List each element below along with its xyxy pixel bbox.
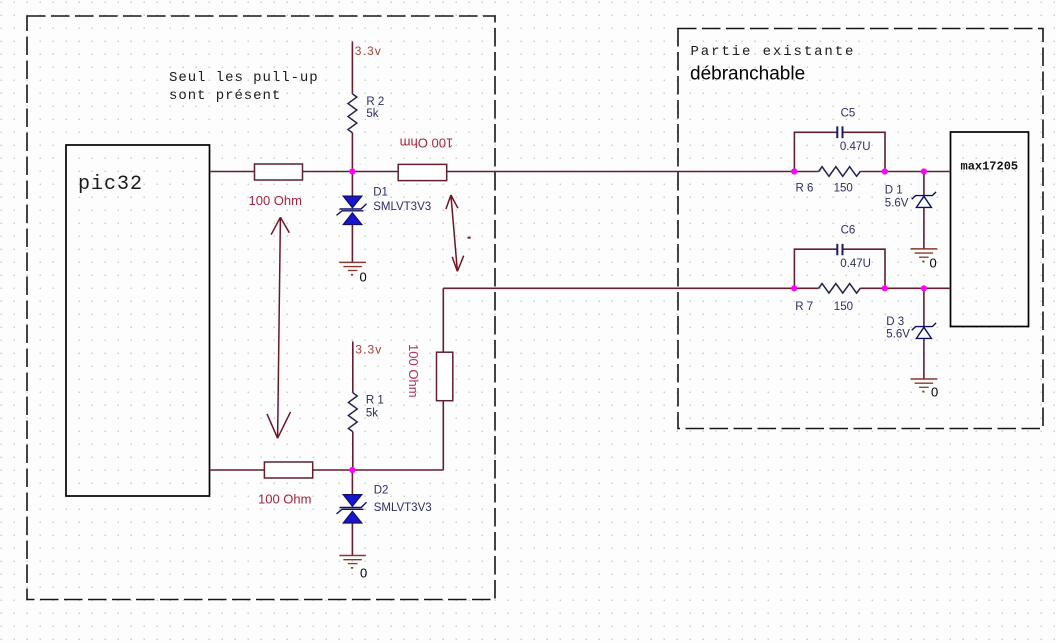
wire: node to zener D 3 xyxy=(923,288,925,326)
svg-text:3.3v: 3.3v xyxy=(355,343,382,357)
wire: R2 to node A xyxy=(351,133,353,196)
ground (under zener D 3) xyxy=(911,379,938,392)
diode D2 TVS SMLVT3V3 xyxy=(337,495,367,523)
annotation arrow (left double-headed) xyxy=(267,217,291,438)
capacitor C5 plates xyxy=(837,126,842,138)
wire: C6 bracket xyxy=(794,249,885,288)
svg-text:R 7: R 7 xyxy=(795,301,813,313)
resistor 100 Ohm (vertical, box body) xyxy=(437,352,453,401)
wire: zener D 3 to ground xyxy=(923,338,925,379)
right dashed region box xyxy=(678,29,1043,429)
svg-text:5.6V: 5.6V xyxy=(886,328,910,340)
junction node (C5 right) xyxy=(882,168,888,174)
svg-text:5.6V: 5.6V xyxy=(885,198,909,210)
junction node (upper R2/D1) xyxy=(349,168,355,174)
svg-text:100 Ohm: 100 Ohm xyxy=(258,492,311,507)
resistor R2 zigzag xyxy=(348,94,357,133)
svg-text:0.47U: 0.47U xyxy=(840,258,871,270)
block U2 max17205 xyxy=(951,132,1029,327)
resistor 100 Ohm (upper left, box body) xyxy=(255,164,303,180)
annotation arrow (right double-headed) xyxy=(446,195,464,271)
svg-text:5k: 5k xyxy=(366,108,378,120)
svg-text:100 Ohm: 100 Ohm xyxy=(249,193,302,208)
wire: 3.3v to R1 xyxy=(352,342,354,393)
wire: upper rail pic32 to R6 xyxy=(210,171,819,173)
junction node (C5 left) xyxy=(791,168,797,174)
svg-text:0: 0 xyxy=(360,566,367,581)
svg-text:C6: C6 xyxy=(841,224,856,236)
svg-text:3.3v: 3.3v xyxy=(355,44,382,58)
svg-text:débranchable: débranchable xyxy=(690,64,805,85)
wire: lower rail corner to R7 xyxy=(443,287,818,289)
junction node (zener D 3 tap) xyxy=(921,285,927,291)
svg-text:max17205: max17205 xyxy=(961,160,1019,174)
resistor R1 zigzag xyxy=(348,393,357,432)
wire: D2 to ground xyxy=(351,523,353,556)
svg-text:D1: D1 xyxy=(373,187,388,199)
wire: lower rail R7 to max17205 xyxy=(860,287,950,289)
svg-text:D 1: D 1 xyxy=(885,184,903,196)
svg-text:0: 0 xyxy=(360,270,367,285)
svg-text:Seul les pull-up: Seul les pull-up xyxy=(169,70,319,86)
diode D1 TVS SMLVT3V3 xyxy=(337,196,367,224)
wire: bottom rail pic32 to vertical xyxy=(210,469,444,471)
wire: zener D 1 to ground xyxy=(923,208,925,249)
svg-text:D2: D2 xyxy=(374,484,389,496)
block pic32 xyxy=(66,145,210,496)
svg-text:R 6: R 6 xyxy=(796,182,814,194)
annotation: Seul les pull-up sont present xyxy=(169,70,319,104)
wire: node B to D2 xyxy=(351,470,353,495)
ground (under D2) xyxy=(339,556,366,569)
junction node (lower R1/D2) xyxy=(349,467,355,473)
svg-text:100 Ohm: 100 Ohm xyxy=(400,135,453,150)
zener diode D 1 5.6V xyxy=(912,192,936,208)
svg-text:C5: C5 xyxy=(841,107,856,119)
wire: upper rail R6 to max17205 xyxy=(860,171,950,173)
svg-text:5k: 5k xyxy=(366,408,378,420)
wire: 3.3v to R2 xyxy=(351,42,353,94)
annotation mark (small dash) xyxy=(468,237,471,239)
svg-text:pic32: pic32 xyxy=(78,173,143,196)
svg-text:Partie existante: Partie existante xyxy=(691,44,856,60)
left dashed region box xyxy=(27,16,495,600)
svg-text:R 1: R 1 xyxy=(366,395,384,407)
svg-text:0: 0 xyxy=(930,256,937,271)
resistor R7 zigzag xyxy=(819,284,861,294)
ground (under D1) xyxy=(339,262,366,275)
junction node (C6 right) xyxy=(882,285,888,291)
svg-text:sont présent: sont présent xyxy=(169,88,281,104)
wire: D1 to ground xyxy=(351,225,353,263)
junction node (C6 left) xyxy=(791,285,797,291)
ground (under zener D 1) xyxy=(911,249,938,262)
svg-text:SMLVT3V3: SMLVT3V3 xyxy=(374,502,432,514)
junction node (zener D 1 tap) xyxy=(921,168,927,174)
resistor 100 Ohm (lower left, box body) xyxy=(264,462,312,478)
zener diode D 3 5.6V xyxy=(912,323,936,339)
capacitor C6 plates xyxy=(837,244,842,255)
svg-text:0: 0 xyxy=(931,385,938,400)
svg-text:SMLVT3V3: SMLVT3V3 xyxy=(373,201,431,213)
wire: vertical through 100 Ohm to lower rail xyxy=(442,288,444,470)
svg-text:R 2: R 2 xyxy=(366,96,384,108)
wire: C5 bracket xyxy=(794,132,885,171)
svg-text:D 3: D 3 xyxy=(886,316,904,328)
svg-text:100 Ohm: 100 Ohm xyxy=(406,344,421,397)
resistor R6 zigzag xyxy=(819,167,861,177)
svg-text:150: 150 xyxy=(834,301,853,313)
svg-text:0.47U: 0.47U xyxy=(840,141,871,153)
wire: R1 to node B xyxy=(352,432,354,470)
wire: node to zener D 1 xyxy=(923,172,925,196)
resistor 100 Ohm (upper middle, box body) xyxy=(398,164,447,180)
svg-text:150: 150 xyxy=(834,182,853,194)
